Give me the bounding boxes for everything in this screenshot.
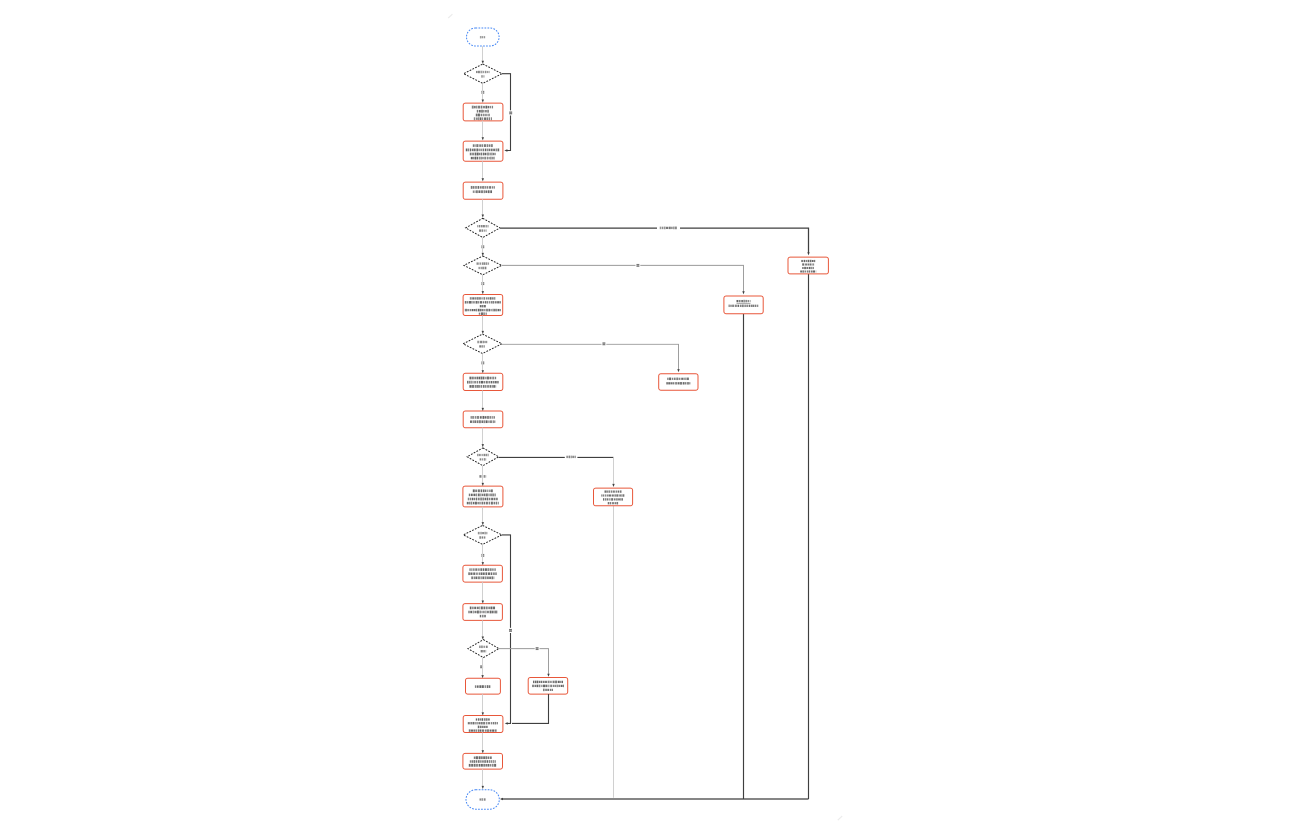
- decision D5: [467, 448, 499, 466]
- wire start to D1: [482, 46, 484, 64]
- process P2: [463, 141, 503, 161]
- process P1: [463, 103, 503, 121]
- faint artifact bottom-right: [838, 816, 842, 820]
- wire P2 to P3: [482, 161, 484, 181]
- wire P5 to P6: [482, 391, 484, 412]
- process P8: [463, 565, 503, 582]
- wire no-branch D1 to P2: [502, 74, 513, 152]
- wire D4 branch to right box N: [502, 342, 680, 373]
- process P11: [463, 753, 503, 769]
- wire D2 to D3: [482, 238, 484, 257]
- process Q: [594, 488, 633, 506]
- label yes D6: [481, 554, 484, 557]
- wire P10a to P10: [482, 694, 484, 715]
- process P10: [463, 716, 503, 733]
- decision D4: [463, 334, 502, 353]
- label yes D3: [481, 282, 484, 285]
- wire bottom return to end: [500, 798, 809, 800]
- wire right-top box down to bottom: [808, 274, 810, 799]
- decision D6: [463, 525, 502, 544]
- wire P7 to D6: [482, 507, 484, 525]
- wire P4 to D4: [482, 316, 484, 335]
- decision D3: [464, 256, 502, 275]
- wire D5 branch to right box Q: [499, 454, 615, 487]
- process P9: [463, 604, 503, 621]
- wire yes-branch D7 to box R: [499, 646, 550, 677]
- decision D2: [466, 218, 500, 237]
- wire D5 to P7: [482, 466, 484, 486]
- label no D7: [480, 665, 483, 668]
- wire P3 to D2: [482, 199, 484, 217]
- wire D1 to P1: [482, 83, 484, 102]
- wire D6 to P8: [482, 544, 484, 565]
- wire D2 branch to right-top box: [500, 225, 810, 255]
- wire box Q down to bottom: [613, 506, 615, 798]
- label yes D1: [481, 91, 484, 94]
- process P3: [463, 182, 503, 199]
- wire P8 to P9: [482, 582, 484, 604]
- wire no-branch D6 to P10: [502, 535, 513, 725]
- wire D7 to P10a: [481, 658, 483, 679]
- end terminator: [466, 790, 499, 809]
- process P5: [463, 373, 503, 390]
- wire P1 to P2: [482, 121, 484, 140]
- process P6: [463, 411, 503, 428]
- wire P9 to D7: [482, 620, 484, 639]
- label yes D4: [481, 361, 484, 364]
- wire P6 to D5: [482, 428, 484, 447]
- process P7: [463, 486, 503, 507]
- decision D1: [464, 64, 502, 83]
- process R (right of P10a): [528, 678, 568, 695]
- wire D3 branch to right-mid box: [502, 263, 745, 294]
- wire P10 to P11: [482, 733, 484, 754]
- decision D7: [468, 640, 499, 658]
- process P4: [463, 295, 503, 316]
- process right-mid M: [724, 296, 763, 314]
- wire right-mid box down to bottom: [743, 314, 745, 799]
- faint artifact top-left: [448, 14, 452, 18]
- process right-top T: [788, 257, 828, 274]
- wire D4 to P5: [482, 354, 484, 374]
- wire R to P10 junction: [512, 694, 549, 723]
- wire P11 to end: [482, 769, 484, 789]
- label need D5: [479, 475, 481, 478]
- label no D2: [481, 245, 484, 248]
- process P10a: [466, 678, 501, 694]
- process N: [659, 374, 698, 391]
- wire D3 to P4: [482, 275, 484, 294]
- start terminator: [467, 28, 500, 46]
